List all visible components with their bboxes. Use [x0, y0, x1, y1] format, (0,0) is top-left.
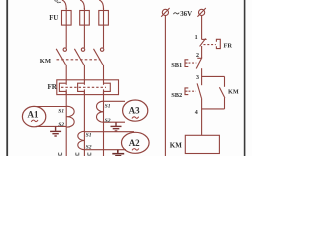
wire node2-3	[201, 68, 203, 85]
label ~36V	[173, 13, 179, 15]
contactor KM main contact 3	[94, 48, 104, 65]
wire L2 (KM to FR)	[83, 65, 85, 85]
supply terminal left	[161, 8, 169, 17]
branch top wire	[202, 75, 225, 77]
wire TA1-S1 to A1	[36, 106, 66, 108]
push button SB1 (NC)	[185, 58, 202, 69]
FR link (dashed)	[61, 86, 106, 88]
ground (TA1)	[50, 126, 61, 136]
contactor coil KM	[185, 135, 219, 153]
KM aux contact branch	[219, 76, 225, 109]
current transformer TA3 winding	[97, 101, 104, 122]
current transformer TA2 winding	[78, 131, 85, 149]
tilde A1	[31, 120, 38, 122]
FR release element + dashes	[204, 39, 221, 48]
svg-text:FR: FR	[48, 83, 58, 91]
svg-text:36V: 36V	[180, 11, 192, 18]
svg-text:S2: S2	[86, 145, 92, 151]
wire TA2-S1 to A2	[84, 131, 134, 133]
svg-text:2: 2	[196, 53, 199, 59]
svg-text:1: 1	[195, 35, 198, 41]
wire TA1-S2 to A1	[36, 125, 66, 127]
svg-text:S2: S2	[58, 122, 64, 128]
svg-text:KM: KM	[228, 89, 239, 96]
svg-text:SB2: SB2	[171, 92, 182, 99]
wire node1-2	[201, 46, 203, 58]
svg-text:A3: A3	[129, 106, 140, 116]
fuse FU phase 1	[62, 11, 72, 26]
FR NC contact (control)	[200, 38, 207, 46]
FR heater element phase 3	[104, 83, 111, 94]
wire L2 (FR to bottom)	[83, 91, 85, 156]
tilde A2	[132, 149, 139, 151]
thermal relay FR box	[57, 80, 119, 95]
wire TA2-S2 to A2	[84, 149, 126, 151]
wire TA3-S2 to A3	[104, 121, 126, 123]
wire L1 fuse lead	[65, 8, 67, 48]
FR heater element phase 2	[78, 83, 85, 94]
control right rail (top)	[201, 16, 203, 40]
tilde A3	[132, 117, 139, 119]
current transformer TA1 winding	[66, 106, 74, 127]
wire L3 top hook	[99, 0, 103, 9]
svg-text:S1: S1	[58, 109, 64, 115]
contactor KM main contact 1	[56, 48, 66, 65]
wire L1 top hook	[62, 0, 66, 9]
contactor KM main contact 2	[74, 48, 84, 65]
branch bottom wire	[202, 108, 225, 110]
svg-text:A2: A2	[129, 138, 140, 148]
ground (TA2)	[112, 150, 124, 156]
fuse FU phase 2	[80, 11, 90, 26]
ground (TA3)	[111, 122, 122, 131]
right page border	[244, 0, 246, 156]
push button SB2 (NO)	[185, 83, 202, 98]
fuse FU phase 3	[99, 11, 109, 26]
KM mechanical link (dashed)	[57, 59, 101, 61]
wire L1 (FR to bottom)	[65, 91, 67, 156]
label QS remnant	[55, 0, 61, 3]
wire L3 (KM to FR)	[103, 65, 105, 85]
wire L1 (KM to FR)	[65, 65, 67, 85]
control left rail	[164, 16, 166, 157]
svg-text:FU: FU	[49, 15, 58, 22]
svg-text:FR: FR	[224, 43, 233, 50]
ammeter A3	[123, 100, 148, 121]
svg-text:KM: KM	[40, 58, 51, 65]
ammeter A2	[122, 132, 150, 153]
wire L2 fuse lead	[83, 8, 85, 48]
svg-text:S1: S1	[105, 104, 111, 110]
svg-text:3: 3	[196, 75, 199, 81]
svg-text:4: 4	[195, 110, 198, 116]
svg-text:A1: A1	[28, 110, 39, 120]
ammeter A1	[22, 106, 45, 126]
wire TA3-S1 to A3	[104, 100, 126, 102]
wire L2 top hook	[80, 0, 84, 9]
svg-text:S1: S1	[86, 132, 92, 138]
wire L3 (FR to bottom)	[103, 91, 105, 156]
supply terminal right	[197, 8, 205, 17]
svg-text:SB1: SB1	[171, 62, 182, 69]
left page border	[6, 0, 8, 156]
FR heater element phase 1	[59, 83, 66, 94]
svg-text:S2: S2	[105, 118, 111, 124]
svg-text:KM: KM	[170, 142, 182, 150]
bottom clipped labels	[59, 153, 91, 156]
wire SB2 to coil	[201, 98, 203, 135]
wire L3 fuse lead	[103, 8, 105, 48]
